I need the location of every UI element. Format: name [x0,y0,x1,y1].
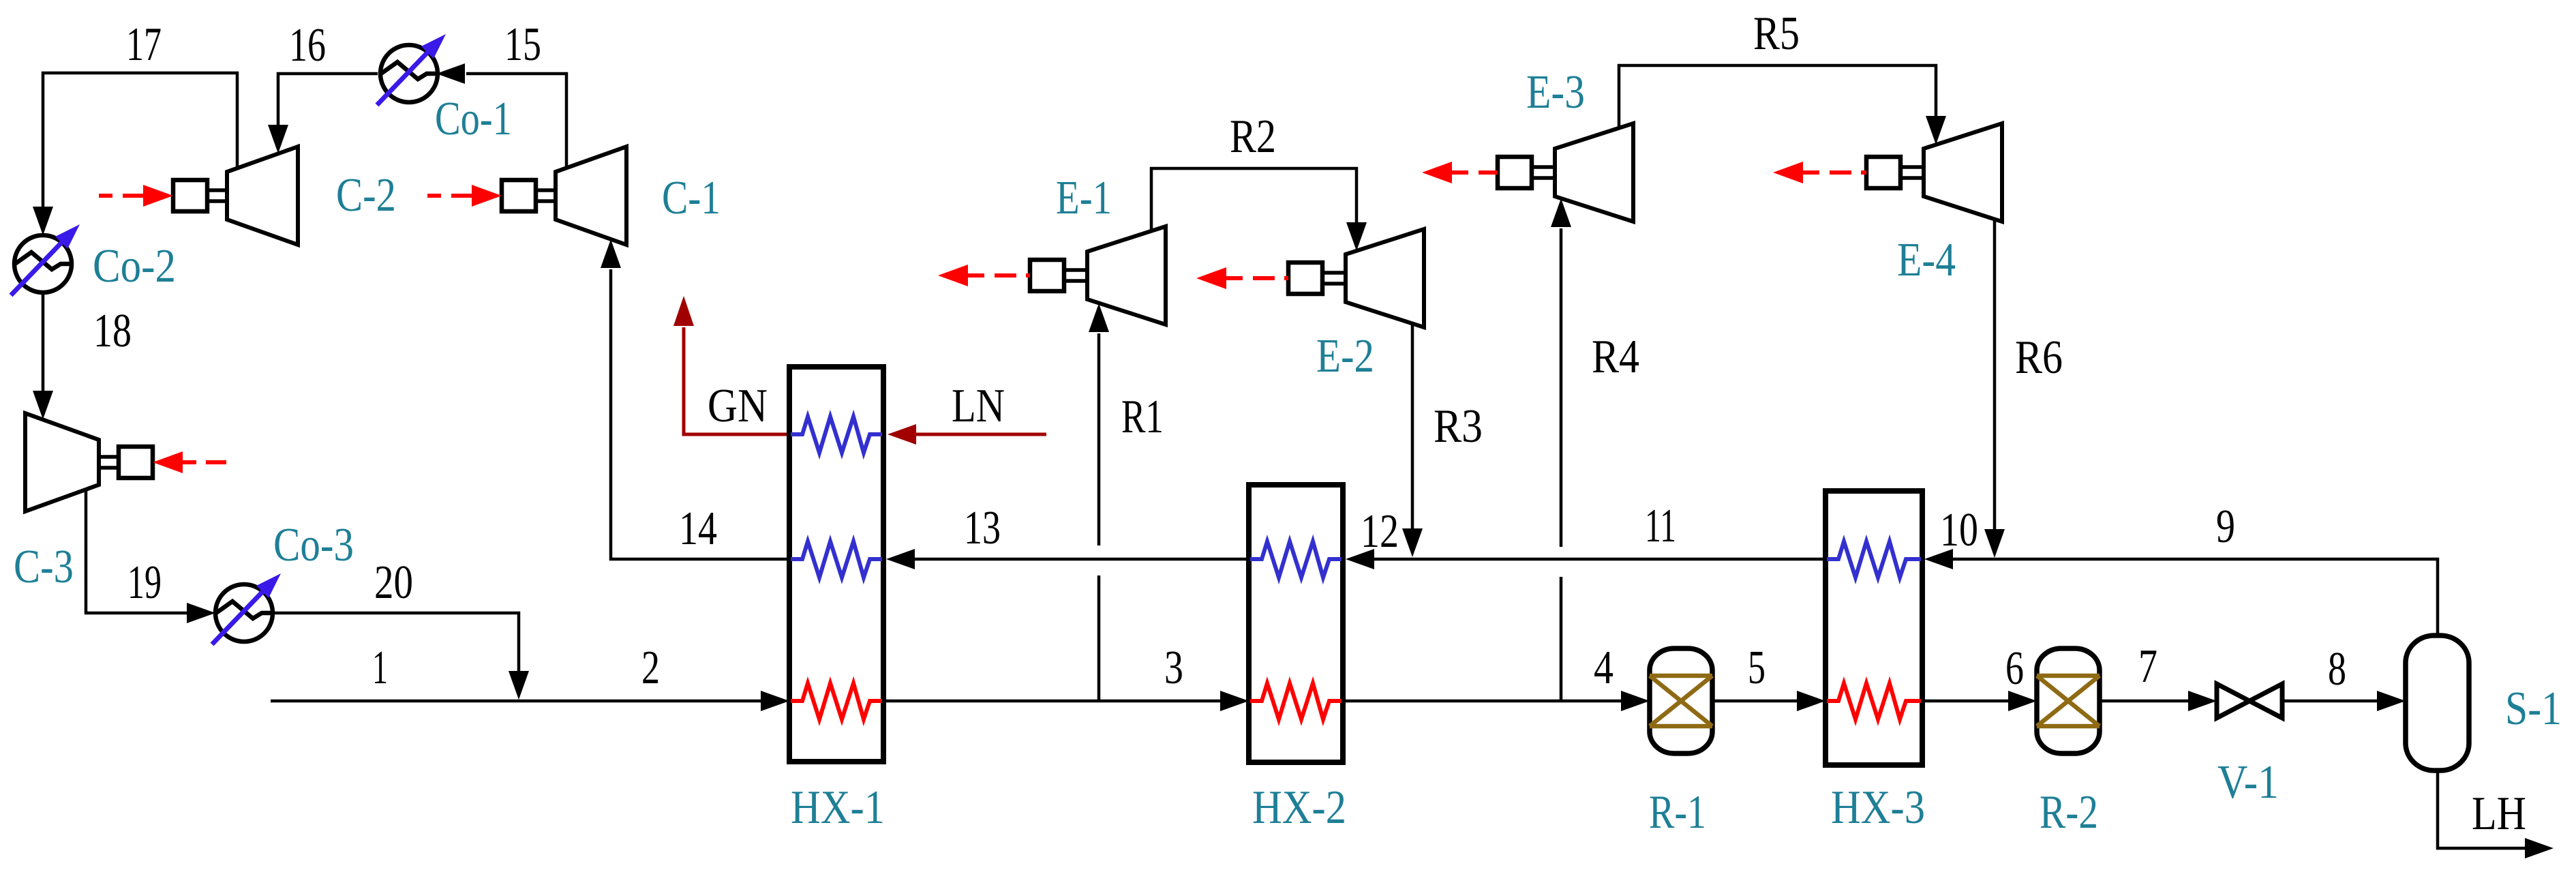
heat exchanger HX-3 [1825,491,1922,765]
svg-text:C-3: C-3 [14,541,74,593]
svg-text:18: 18 [93,305,132,357]
wire R3 E-2 down to line 12 [1402,324,1423,557]
svg-text:E-4: E-4 [1897,234,1956,286]
svg-text:R1: R1 [1121,391,1164,443]
wire stream 16 Co-1 to C-2 [268,74,378,153]
svg-text:5: 5 [1748,642,1766,694]
coil HX-1 feed (red) [791,683,882,719]
expander E-4 [1773,123,2002,222]
wire stream 7 [2100,691,2217,711]
wire stream 18 Co-2 to C-3 [33,293,53,419]
svg-text:Co-2: Co-2 [93,240,176,293]
wire stream 14 HX-1 to C-1 [601,239,789,559]
svg-text:11: 11 [1645,500,1676,552]
coil HX-2 top (blue) [1250,541,1342,578]
wire stream 8 [2282,691,2406,711]
coil HX-3 bottom (red) [1827,683,1921,719]
svg-text:R3: R3 [1434,400,1483,453]
wire R1 riser to E-1 (break at line 13 crossing) [1089,303,1109,700]
wire stream 10 into HX-3 [1924,549,1995,569]
heat exchanger HX-1 [789,367,883,762]
compressor C-3 (mirrored) [25,413,227,511]
svg-text:7: 7 [2138,640,2157,693]
coil HX-1 middle stream 13-14 (blue) [791,541,882,578]
wire stream 13 HX-2 to HX-1 [886,549,1249,569]
svg-text:E-2: E-2 [1316,330,1374,383]
svg-text:GN: GN [708,380,768,432]
svg-text:E-1: E-1 [1056,172,1112,224]
svg-text:C-1: C-1 [662,172,721,224]
svg-text:17: 17 [126,18,162,71]
svg-text:14: 14 [679,503,717,555]
cooler Co-1 [377,34,446,105]
wire R6 E-4 down to line 10 junction [1984,220,2005,558]
coil HX-3 top (blue) [1827,541,1921,578]
wire stream 17 C-2 to Co-2 [33,73,237,235]
coil HX-2 bottom (red) [1250,683,1342,719]
svg-text:1: 1 [372,642,388,694]
svg-text:LH: LH [2472,788,2526,840]
svg-text:R5: R5 [1753,8,1800,60]
heat exchanger HX-2 [1249,485,1343,762]
wire stream 5 [1712,691,1825,711]
wire R4 riser to E-3 (break at line 11 crossing) [1551,198,1571,700]
svg-text:R-2: R-2 [2040,786,2098,839]
separator S-1 [2406,635,2469,770]
wire stream 9 from separator top [1995,559,2438,635]
wire stream 3 [883,691,1249,711]
svg-text:C-2: C-2 [336,169,396,222]
svg-text:10: 10 [1940,504,1978,556]
compressor C-2 [99,147,298,245]
wire stream 20 Co-3 to main line junction [274,613,529,700]
reactor R-2 [2037,648,2100,753]
svg-text:15: 15 [504,18,541,71]
svg-text:13: 13 [964,502,1001,554]
svg-text:8: 8 [2328,643,2346,695]
cooler Co-2 [11,224,80,295]
svg-text:6: 6 [2005,642,2024,695]
svg-text:12: 12 [1361,505,1399,558]
wire GN outlet from HX-1 [673,296,789,434]
svg-text:V-1: V-1 [2217,756,2279,809]
cooler Co-3 [212,573,281,644]
compressor C-1 [427,147,626,245]
svg-text:S-1: S-1 [2505,683,2562,735]
wire R5 E-3 to E-4 [1619,65,1946,145]
svg-text:3: 3 [1164,642,1183,694]
svg-text:R6: R6 [2015,331,2063,384]
svg-text:20: 20 [374,556,413,609]
reactor R-1 [1650,648,1712,753]
svg-text:Co-3: Co-3 [273,519,354,571]
wire R2 E-1 to E-2 [1151,168,1367,251]
svg-text:HX-1: HX-1 [791,781,885,834]
svg-text:E-3: E-3 [1526,66,1585,119]
svg-text:R-1: R-1 [1649,786,1706,839]
svg-text:R4: R4 [1592,331,1639,383]
svg-text:HX-2: HX-2 [1252,781,1346,834]
wire stream 4 [1343,691,1650,711]
svg-text:16: 16 [289,19,326,72]
svg-text:2: 2 [641,642,660,694]
wire LH separator bottoms product [2438,770,2554,858]
svg-text:4: 4 [1594,642,1613,694]
svg-text:HX-3: HX-3 [1831,781,1925,834]
wire stream 6 [1922,691,2037,711]
wire stream 1-2 main feed line [271,691,789,711]
expander E-1 [938,226,1166,325]
wire stream 11 HX-3 to HX-2 [1346,549,1825,569]
svg-text:R2: R2 [1230,110,1276,163]
wire stream 19 C-3 to Co-3 [86,490,215,623]
expander E-2 [1196,229,1424,327]
wire LN inlet to HX-1 [888,424,1046,445]
svg-text:LN: LN [952,380,1005,432]
svg-text:19: 19 [127,556,162,609]
valve V-1 [2217,684,2282,718]
svg-text:Co-1: Co-1 [435,93,512,145]
coil HX-1 GN/LN (blue) [791,417,882,453]
expander E-3 [1422,123,1633,222]
wire stream 15 C-1 to Co-1 [436,63,566,168]
svg-text:9: 9 [2216,500,2235,553]
